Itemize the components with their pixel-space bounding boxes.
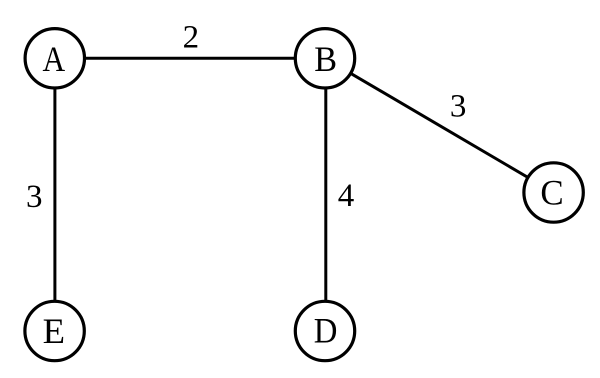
svg-text:C: C: [540, 172, 563, 213]
svg-text:D: D: [314, 311, 338, 351]
svg-text:A: A: [42, 40, 65, 79]
svg-text:E: E: [43, 311, 65, 351]
svg-text:4: 4: [338, 178, 355, 214]
svg-text:3: 3: [450, 89, 467, 125]
svg-text:2: 2: [183, 20, 200, 56]
svg-text:B: B: [314, 39, 337, 79]
svg-text:3: 3: [26, 179, 43, 215]
